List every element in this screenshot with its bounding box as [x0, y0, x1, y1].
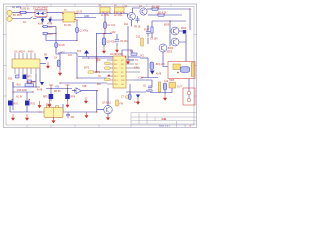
wire yellow bar bottom	[159, 91, 161, 94]
resistor R8	[25, 84, 34, 87]
svg-text:4N35: 4N35	[28, 51, 34, 53]
capacitor C12	[66, 112, 70, 118]
svg-text:U2 89C2051: U2 89C2051	[110, 54, 124, 56]
wire rail y33.5	[96, 33, 112, 35]
transistor Q4	[171, 38, 179, 46]
pin ticks	[12, 8, 165, 113]
wire relay RL1 right	[62, 104, 64, 112]
wire squares bottom	[9, 106, 11, 112]
power port T2	[104, 33, 106, 35]
bridge rectifier box D1-D4	[35, 10, 47, 17]
ground arrow G2	[84, 97, 87, 103]
svg-text:AC IN: AC IN	[16, 96, 22, 99]
wire v x152b	[151, 33, 153, 38]
svg-text:P13: P13	[114, 72, 117, 74]
svg-text:X2: X2	[121, 72, 123, 74]
svg-text:C5 104: C5 104	[120, 41, 128, 43]
ground arrow G4	[115, 46, 118, 52]
wire ecap bottom	[164, 90, 166, 94]
relay body	[180, 67, 190, 73]
svg-text:9V 2W: 9V 2W	[64, 25, 72, 27]
connector P2 pin1	[187, 91, 191, 95]
svg-text:Sheet 1 of 1: Sheet 1 of 1	[159, 125, 171, 128]
svg-text:OUT: OUT	[177, 86, 182, 88]
svg-text:R10 220K: R10 220K	[17, 90, 28, 92]
thyristor D7	[183, 30, 186, 34]
svg-text:D1-D4 1N4007: D1-D4 1N4007	[33, 7, 49, 9]
wire v x40 under IC1	[39, 68, 41, 82]
svg-text:4148: 4148	[47, 24, 53, 26]
transformer T1	[63, 12, 75, 22]
wire P30 P31 double	[78, 56, 113, 58]
wire h y92	[126, 91, 146, 93]
svg-text:C3 104: C3 104	[150, 39, 158, 41]
svg-text:R13: R13	[49, 34, 54, 36]
svg-text:U1 LM324: U1 LM324	[14, 51, 25, 53]
wire v x27	[26, 92, 28, 100]
bridge wire	[36, 11, 46, 14]
relay coil K1	[173, 64, 180, 70]
diode Dd under IC1	[40, 82, 44, 86]
svg-text:+12V: +12V	[110, 32, 116, 34]
resistor Ra under IC1	[16, 75, 20, 78]
transformer pins	[62, 13, 75, 20]
svg-text:RP 5K: RP 5K	[54, 91, 61, 93]
wire IC2 left pins	[94, 60, 141, 84]
power port T1a	[49, 85, 53, 89]
wire y57	[128, 56, 140, 58]
wire cap2 drop	[116, 34, 118, 40]
ground arrow G7	[11, 114, 14, 120]
svg-text:R16: R16	[17, 85, 22, 87]
svg-text:C2 470u: C2 470u	[80, 31, 89, 33]
svg-text:RV2: RV2	[31, 104, 36, 106]
svg-text:R8 100K: R8 100K	[26, 82, 35, 84]
wire transformer secondary lower stub	[75, 17, 96, 19]
wire resistor to right rail	[158, 8, 190, 10]
wire Q1 collector up	[133, 8, 141, 13]
wire v x60 down	[59, 54, 61, 70]
svg-text:KG: KG	[23, 22, 27, 24]
svg-text:P12: P12	[114, 68, 117, 70]
power port T1b	[66, 85, 70, 89]
relay module box	[168, 62, 195, 79]
wire v x46	[45, 34, 47, 41]
wire switch to bridge bottom	[37, 17, 47, 18]
svg-text:INT0: INT0	[84, 67, 90, 69]
svg-text:U3B: U3B	[82, 86, 87, 88]
svg-text:X1: X1	[121, 68, 123, 70]
svg-text:VCC: VCC	[60, 53, 65, 55]
wire ecap drop	[103, 34, 105, 39]
capacitor C5 plates	[115, 40, 119, 44]
svg-text:L1 470u: L1 470u	[101, 15, 110, 17]
wire mid bus y50.5	[58, 52, 77, 54]
transistor Q2	[140, 8, 147, 15]
svg-text:P14: P14	[114, 76, 117, 78]
zener D9	[84, 50, 89, 54]
wire Q6 base	[97, 109, 104, 111]
wire divider drops	[50, 89, 52, 95]
border zone ticks bottom	[27, 125, 99, 128]
svg-text:RP5: RP5	[43, 97, 48, 99]
wire y15 right	[148, 14, 158, 16]
ground arrow G10	[106, 116, 109, 120]
ground arrow G5	[163, 94, 166, 100]
connector P2 box	[183, 88, 195, 105]
wire divider rail y88.5	[46, 88, 72, 90]
svg-text:8550: 8550	[167, 52, 173, 54]
wire u4 bottom	[171, 88, 173, 93]
svg-text:MCR: MCR	[181, 28, 187, 30]
svg-text:FM: FM	[120, 104, 123, 106]
svg-text:P36: P36	[121, 80, 124, 82]
wire relay RL1 bottom	[53, 117, 55, 119]
wire v x77 center tap	[76, 53, 78, 78]
wire bottom right rail	[150, 92, 172, 94]
svg-text:Q7 9013: Q7 9013	[102, 103, 112, 105]
wire Q6 collector up	[107, 88, 109, 106]
resistor R3	[131, 53, 137, 55]
fuse bar F2	[158, 82, 161, 92]
net flag F1	[105, 62, 111, 64]
svg-text:P16: P16	[114, 84, 117, 86]
svg-text:4148: 4148	[156, 74, 162, 76]
IC U1	[12, 59, 40, 68]
svg-text:RV1: RV1	[14, 104, 19, 106]
transistor Q3	[171, 27, 179, 35]
svg-text:R1 10K: R1 10K	[152, 6, 160, 8]
ground arrow G11	[126, 60, 129, 64]
svg-text:EI-35: EI-35	[77, 12, 83, 14]
transistor Q5	[159, 44, 167, 52]
wire AC N from connector J2	[12, 18, 30, 20]
svg-text:+5V: +5V	[55, 87, 60, 89]
preset Rb under IC1	[23, 75, 27, 80]
diode D5	[41, 19, 44, 22]
wire bridge out top to transformer	[47, 12, 63, 14]
capacitor C1	[104, 22, 107, 28]
wire cap2 gnd	[116, 44, 118, 46]
wire fuse to bridge	[26, 12, 35, 14]
wire ecap to gnd	[103, 45, 105, 47]
border zone ticks top	[27, 4, 171, 7]
junction dots	[12, 8, 190, 112]
wire v x170 transistor rail	[169, 21, 171, 46]
wire v x36 under IC1	[35, 74, 37, 87]
svg-text:GND: GND	[84, 16, 89, 18]
switch S1	[30, 17, 37, 19]
wire h y83	[60, 82, 107, 84]
bridge diode Da	[37, 12, 40, 15]
relay tabs	[47, 106, 50, 108]
wire v x130 bottom	[129, 84, 131, 94]
ground arrow G13	[66, 101, 69, 107]
wire Q3 Q4 links	[179, 30, 183, 32]
diode D11	[136, 95, 140, 99]
wire inductor pins	[102, 12, 104, 14]
resistor R13 box	[43, 32, 47, 35]
wire y15 right2	[164, 14, 182, 16]
svg-text:FMQ: FMQ	[46, 105, 51, 107]
driver cap CD	[150, 62, 154, 70]
regulator U4	[169, 83, 176, 89]
capacitor C9 plates	[148, 88, 152, 92]
net flag F4	[88, 71, 94, 73]
ground arrow G14	[85, 112, 88, 118]
resistor R12 box	[43, 25, 47, 28]
svg-text:4148: 4148	[134, 102, 140, 104]
wire h y112 bottom-left	[10, 111, 44, 113]
wire cap x148	[147, 26, 149, 30]
wire bridge out bottom to transformer	[51, 17, 63, 21]
connector J1 AC L	[7, 10, 12, 15]
op-amp U3	[76, 88, 82, 94]
wire h y80 under IC1	[32, 81, 37, 83]
wire IC1 top pins	[15, 53, 36, 80]
varistor RV2	[25, 101, 30, 106]
wire AC L from connector J1	[12, 12, 20, 14]
wire to Q1	[128, 14, 132, 27]
svg-text:C1 104: C1 104	[108, 25, 116, 27]
wire IC2 top feed	[121, 50, 123, 56]
resistor R4	[55, 43, 58, 48]
wire v x97 long	[96, 91, 98, 112]
svg-text:P11: P11	[114, 64, 117, 66]
preset RP1	[49, 94, 54, 99]
wire v x56	[55, 27, 57, 43]
svg-text:BX 250V: BX 250V	[13, 15, 23, 17]
wire IC1 underside	[13, 82, 40, 87]
svg-text:5V6: 5V6	[77, 51, 82, 53]
varistor RV1	[8, 101, 13, 106]
net flag F3	[105, 78, 111, 80]
capacitor C7	[128, 94, 131, 100]
inductor L1	[100, 7, 110, 12]
ground arrow G8	[25, 114, 28, 120]
svg-text:L2 470u: L2 470u	[114, 15, 123, 17]
wire h y33	[43, 33, 56, 35]
svg-text:P10: P10	[114, 60, 117, 62]
capacitor CE1	[102, 38, 106, 45]
wire relay right	[185, 42, 187, 62]
fuse F1	[20, 11, 26, 13]
wire mid rail y40	[46, 40, 77, 42]
transistor Q6	[104, 106, 112, 114]
svg-text:INT1: INT1	[95, 72, 101, 74]
svg-text:AC 220V: AC 220V	[12, 6, 22, 9]
svg-text:C6 470u: C6 470u	[107, 42, 116, 44]
wire Q5 down to relay	[163, 52, 168, 67]
wire IC2 right to relay drive	[134, 80, 152, 86]
svg-text:P15: P15	[114, 80, 117, 82]
ground arrow G9	[52, 119, 55, 123]
svg-text:R12: R12	[49, 27, 54, 29]
svg-text:R15: R15	[8, 79, 13, 81]
svg-text:R9 1K: R9 1K	[134, 27, 141, 29]
resistor R1	[152, 8, 158, 10]
svg-text:8050: 8050	[164, 25, 170, 27]
diode red pin	[108, 74, 111, 77]
wire h y78 to IC2	[77, 77, 107, 79]
svg-text:7805: 7805	[169, 80, 175, 82]
wire x152 caps	[148, 86, 152, 87]
capacitor C2	[136, 16, 140, 23]
svg-text:R2 4.7K: R2 4.7K	[158, 12, 167, 14]
wire cap x105 below	[104, 28, 106, 33]
wire h y80 right of IC2	[128, 59, 134, 61]
svg-text:RELAY: RELAY	[146, 90, 154, 93]
power port T2a	[95, 58, 99, 63]
wire transformer secondary top rail	[75, 13, 128, 15]
wire v x13 long	[12, 82, 14, 110]
capacitor CE2	[163, 83, 166, 90]
svg-text:WR: WR	[97, 84, 101, 86]
connector J2 AC N	[7, 16, 12, 21]
svg-text:P37: P37	[121, 76, 124, 78]
wire relay to connector	[188, 79, 190, 92]
wire IC2 top right corner	[122, 50, 132, 54]
ground arrow G1	[46, 62, 49, 68]
power arrow A1	[38, 101, 41, 108]
wire opamp in	[72, 90, 76, 92]
relay RL1	[44, 108, 63, 118]
svg-text:8050: 8050	[168, 48, 174, 50]
svg-text:RP3: RP3	[27, 77, 32, 79]
power arrow A2	[48, 99, 51, 107]
capacitor C3	[146, 32, 150, 34]
svg-text:+12V: +12V	[138, 78, 144, 80]
wire v x128	[127, 26, 129, 60]
preset RP2	[65, 94, 70, 99]
svg-text:4148: 4148	[37, 90, 43, 92]
wire opamp out	[82, 90, 99, 92]
svg-text:TXD: TXD	[96, 60, 101, 62]
capacitor C2b on center tap	[76, 28, 79, 33]
svg-text:R14: R14	[124, 24, 129, 26]
net flag F2	[105, 67, 111, 69]
diode D8	[45, 57, 49, 60]
sheet border outer	[4, 4, 197, 128]
wire Q6 emitter	[107, 114, 109, 117]
wire diode taps	[42, 18, 44, 20]
resistor R2	[158, 14, 164, 16]
ground arrow G6	[136, 98, 139, 104]
title block lines	[131, 112, 197, 114]
wire y21 right	[152, 20, 186, 22]
inductor L2	[115, 7, 125, 12]
connector P2 pin2	[187, 98, 191, 102]
bridge diode Db	[41, 12, 44, 15]
wire h y27	[42, 26, 56, 28]
transistor Q1	[128, 12, 136, 20]
LED bar B2	[116, 100, 119, 106]
border zone ticks left right	[4, 35, 197, 97]
wire IC1 right pin	[40, 63, 46, 65]
wire Q2 top right	[147, 8, 152, 10]
wire v x190	[189, 9, 191, 30]
svg-text:RP4: RP4	[71, 97, 76, 99]
sheet border inner	[6, 7, 194, 126]
svg-text:FUSE 3A: FUSE 3A	[20, 8, 30, 11]
svg-text:D12: D12	[136, 36, 141, 38]
svg-text:12M: 12M	[134, 68, 139, 70]
capacitor C4	[57, 60, 60, 67]
wire cap x105 down	[104, 14, 106, 23]
svg-text:JDQ-12V: JDQ-12V	[156, 64, 166, 66]
IC U2	[113, 56, 126, 88]
wire transformer right down	[76, 20, 78, 41]
svg-text:4148: 4148	[38, 24, 44, 26]
LED LED1	[141, 38, 143, 46]
diode D6	[49, 19, 52, 22]
relay contact bar	[191, 63, 194, 77]
ground arrow G3	[102, 47, 105, 53]
net flag F5	[126, 96, 131, 98]
ground arrow G12	[58, 70, 61, 75]
resistor Rc under IC1	[28, 80, 32, 83]
connector P2 wire	[188, 95, 190, 98]
resistor R11	[151, 27, 153, 33]
svg-text:R4 2K: R4 2K	[59, 45, 66, 47]
wire h y92 left	[13, 91, 33, 93]
wire v x152	[151, 21, 153, 27]
wire x56 resistor down	[56, 48, 60, 55]
